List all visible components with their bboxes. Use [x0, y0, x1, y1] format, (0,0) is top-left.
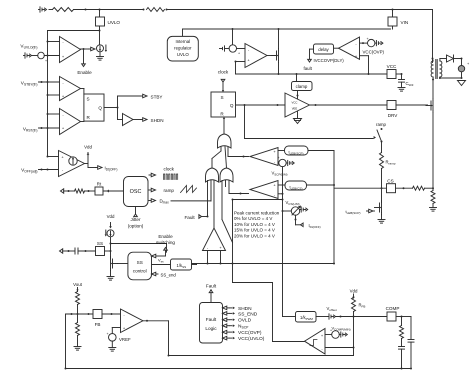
svg-text:OSC: OSC: [130, 189, 142, 195]
wire SS to control: [111, 243, 167, 245]
battery V-offset: [316, 316, 328, 318]
svg-text:Rramp: Rramp: [386, 160, 396, 166]
svg-text:Voffset: Voffset: [327, 306, 337, 312]
icon sawtooth: [181, 186, 197, 193]
wire top to transformer: [432, 10, 434, 63]
pin VCC: [387, 70, 396, 79]
source Vref-reg: [232, 29, 234, 45]
schmitt U12: [305, 329, 326, 355]
op-amp U10 CS: [250, 181, 278, 199]
svg-text:VEE: VEE: [292, 107, 298, 111]
wire schmitt minus: [325, 347, 354, 349]
ground I-UVLO: [99, 52, 101, 57]
svg-text:Vdd: Vdd: [107, 214, 115, 219]
source VREF: [109, 334, 117, 342]
svg-text:RFB: RFB: [359, 303, 366, 309]
transformer T1: [431, 61, 433, 77]
capacitor C-comp1: [399, 346, 405, 348]
resistor R-cs-filter: [413, 186, 425, 190]
svg-text:Vss: Vss: [158, 258, 164, 264]
pin-arrow Rt-gnd: [61, 189, 64, 193]
pin VIN: [392, 10, 394, 18]
svg-text:SS_end: SS_end: [161, 272, 177, 277]
block delay: [334, 47, 339, 49]
or-gate G2 left: [206, 168, 219, 182]
flag enable-switching: [164, 248, 168, 251]
svg-text:Fault: Fault: [206, 317, 217, 322]
block tLEB-SCP: [278, 150, 285, 152]
wire clamp-driver: [297, 91, 299, 100]
op-amp U4 gm: [59, 151, 85, 177]
svg-text:Enable: Enable: [158, 234, 173, 239]
flag fault-VCC(UVLO): [227, 337, 229, 339]
op-amp U6 regulator: [245, 44, 267, 68]
pin DRV: [387, 101, 396, 110]
node SS: [110, 243, 112, 245]
wire VCC rail: [236, 73, 388, 75]
wire G3 inputs: [221, 181, 223, 220]
svg-text:Internal: Internal: [175, 39, 190, 44]
svg-text:10% for UVLO = 4 V: 10% for UVLO = 4 V: [234, 222, 275, 227]
ground Q3: [378, 219, 385, 221]
svg-text:VCOMP(MIN): VCOMP(MIN): [332, 326, 351, 332]
block tLEB-CS: [278, 184, 285, 186]
wire Q1 source: [432, 113, 434, 191]
wire sum node A: [192, 263, 335, 265]
wire top rail: [49, 9, 53, 11]
pin SS: [96, 247, 105, 256]
wire secondary bottom: [439, 77, 441, 78]
source V-SCP-LIM: [277, 162, 280, 164]
resistor R-fb2: [76, 323, 80, 336]
wire bottom rail: [66, 368, 412, 370]
node top-B: [99, 9, 101, 11]
svg-text:OVLD: OVLD: [238, 318, 252, 324]
wire U3 plus: [39, 127, 60, 129]
wire G2 inputs: [207, 181, 209, 217]
flag ramp out: [149, 189, 151, 191]
transistor Q5 pass: [278, 51, 280, 61]
wire rail2: [183, 28, 391, 30]
svg-text:VOFF(adj): VOFF(adj): [21, 168, 37, 174]
block internal regulator UVLO: [182, 29, 184, 36]
latch L1 STBY: [84, 94, 104, 121]
svg-text:VREF: VREF: [119, 337, 131, 342]
wire comp1 out: [81, 48, 89, 50]
svg-text:tLEB(SCP): tLEB(SCP): [346, 209, 361, 215]
flag enable: [83, 49, 85, 64]
svg-text:S: S: [220, 95, 223, 100]
wire U7 minus: [360, 42, 368, 44]
wire driver vee: [297, 111, 299, 119]
wire G3 out: [225, 147, 227, 168]
svg-text:(option): (option): [128, 224, 144, 229]
block 1/k-PWM: [296, 312, 317, 323]
load output: [461, 59, 463, 66]
wire tLEB-CS right: [307, 184, 335, 186]
svg-text:UVLO: UVLO: [108, 20, 121, 25]
op-amp U1: [60, 37, 81, 63]
ground R-sense: [430, 207, 437, 209]
or-gate G3 right: [220, 168, 233, 182]
buffer SHDN: [117, 108, 119, 120]
block clamp: [296, 74, 298, 82]
wire VREF: [112, 327, 120, 329]
resistor Rdiv2: [147, 8, 165, 12]
svg-text:VUVLO(th): VUVLO(th): [20, 44, 37, 50]
resistor R-sense: [431, 191, 435, 204]
pin COMP: [387, 312, 396, 321]
svg-text:Dmax: Dmax: [160, 199, 170, 205]
svg-text:Cvcc: Cvcc: [406, 81, 414, 87]
wire G2 out: [211, 159, 213, 169]
node FB div: [77, 313, 79, 315]
wire U6 out: [267, 55, 277, 57]
node rail2-ref: [232, 28, 234, 30]
source V-CS-LIM variable: [283, 210, 292, 212]
wire G1 in right: [227, 147, 229, 157]
oscillator OSC: [124, 177, 149, 207]
svg-text:switching: switching: [156, 240, 175, 245]
wire L1 Q out: [104, 107, 118, 109]
wire U4 minus: [39, 169, 59, 171]
wire U3 out: [81, 121, 84, 123]
op-amp U5 PWM: [203, 228, 226, 251]
svg-text:Enable: Enable: [77, 70, 92, 75]
flag fault-OVLD: [227, 319, 229, 321]
node Q5 drain: [278, 29, 280, 49]
block SS control: [128, 252, 152, 280]
flag Dmax out: [149, 200, 151, 202]
source V-UVLO(th): [24, 55, 26, 57]
svg-text:+: +: [467, 62, 470, 66]
or-gate G1 top: [218, 134, 232, 148]
ground secondary: [458, 81, 466, 86]
wire Dmax: [171, 200, 211, 202]
wire Rt to OSC: [103, 190, 124, 192]
wire U5 inputs: [207, 251, 209, 264]
wire kss out: [192, 264, 197, 266]
wire ramp-sum: [233, 199, 283, 201]
svg-text:VCC: VCC: [292, 101, 298, 105]
svg-text:NSCP: NSCP: [238, 324, 249, 330]
svg-text:Q: Q: [98, 105, 102, 110]
ground R-fb2: [74, 346, 81, 348]
flag jitter: [135, 207, 137, 215]
svg-text:+: +: [45, 59, 47, 63]
flag IVCCOVP: [310, 48, 314, 50]
svg-text:15% for UVLO = 4 V: 15% for UVLO = 4 V: [234, 228, 275, 233]
wire U4 out: [85, 163, 89, 165]
flag fault-SHDN: [227, 307, 229, 309]
wire latch2 to driver: [236, 104, 286, 106]
ground Cvcc: [398, 87, 405, 89]
box Rt: [95, 187, 103, 195]
svg-text:fault: fault: [304, 66, 313, 71]
current source I-SS: [110, 225, 112, 227]
wire kpwm net: [283, 316, 296, 318]
svg-text:IVCCOVP(DLY): IVCCOVP(DLY): [314, 58, 345, 63]
flag fault-VCC(OVP): [227, 331, 229, 333]
svg-text:S: S: [87, 97, 90, 102]
wire U2 out: [81, 88, 84, 90]
wire Vss: [152, 264, 171, 266]
compensation R-comp: [401, 317, 403, 326]
svg-text:ramp: ramp: [376, 122, 387, 127]
svg-text:VCC: VCC: [387, 64, 397, 69]
source VCC-OVP: [368, 39, 375, 46]
svg-text:Vdd: Vdd: [350, 289, 358, 294]
wire EA out: [143, 320, 169, 322]
wire FB: [66, 313, 94, 315]
icon clock pulses: [164, 174, 178, 180]
svg-text:SHDN: SHDN: [151, 118, 164, 123]
resistor R-FB-pullup: [352, 298, 356, 312]
capacitor C-comp2: [410, 317, 412, 340]
wire U10 minus: [278, 193, 283, 195]
svg-text:COMP: COMP: [386, 306, 400, 311]
flag STBY: [141, 95, 143, 97]
svg-text:IDt(OFF): IDt(OFF): [309, 223, 321, 229]
wire secondary top: [439, 59, 441, 62]
svg-text:clock: clock: [218, 70, 229, 75]
svg-text:VSCP(LIM): VSCP(LIM): [272, 171, 288, 177]
svg-text:VRST(th): VRST(th): [23, 127, 38, 133]
svg-text:VIN: VIN: [401, 20, 409, 25]
pin UVLO: [99, 10, 101, 18]
wire tLEB-SCP right: [308, 150, 334, 152]
svg-text:VCC(OVP): VCC(OVP): [238, 330, 262, 336]
flag fault-SS_END: [227, 312, 229, 314]
svg-text:20% for UVLO = 4 V: 20% for UVLO = 4 V: [234, 233, 275, 238]
wire U3 minus: [48, 113, 60, 115]
op-amp U7 OVP: [339, 37, 360, 59]
pin CS: [387, 184, 396, 193]
svg-text:+: +: [278, 156, 280, 160]
wire schmitt plus: [325, 334, 332, 336]
svg-text:clamp: clamp: [296, 84, 308, 89]
svg-text:control: control: [133, 269, 147, 274]
wire U6 plus sense: [236, 61, 246, 63]
svg-text:Peak current reduction: Peak current reduction: [234, 211, 280, 216]
svg-text:delay: delay: [318, 47, 329, 52]
op-amp U2: [60, 77, 81, 101]
wire primary bottom: [432, 77, 434, 80]
wire Q to switch: [244, 105, 246, 139]
svg-text:+: +: [367, 37, 369, 41]
svg-text:SS_END: SS_END: [238, 311, 258, 317]
source V-COMP-min: [332, 331, 340, 339]
svg-text:VCC(UVLO): VCC(UVLO): [238, 336, 265, 342]
flag fault-NSCP: [227, 325, 229, 327]
svg-text:STBY: STBY: [151, 94, 163, 99]
svg-text:CS: CS: [387, 179, 393, 184]
ground VREF: [109, 347, 116, 349]
svg-text:DRV: DRV: [388, 113, 399, 118]
node UVLO-bus: [99, 30, 101, 32]
wire U2 minus: [39, 81, 60, 83]
battery VIN-source: [39, 9, 41, 11]
transistor Q1 main: [432, 101, 434, 111]
resistor Rdiv1: [53, 8, 74, 12]
svg-text:clock: clock: [164, 167, 175, 172]
flag SS-end: [156, 273, 158, 275]
current source I-UVLO: [97, 45, 104, 52]
block 1/k-SS: [171, 259, 192, 270]
svg-text:Vout: Vout: [73, 282, 83, 287]
svg-text:Rt: Rt: [97, 181, 102, 186]
pin FB: [93, 310, 102, 319]
svg-text:+: +: [238, 52, 240, 56]
svg-text:Vdd: Vdd: [84, 145, 92, 150]
wire FB left down: [65, 314, 67, 369]
node top-D: [166, 9, 168, 11]
resistor Rt-ext: [75, 189, 85, 193]
op-amp U9 SCP: [250, 148, 278, 166]
svg-text:VCC(OVP): VCC(OVP): [363, 49, 385, 54]
wire CS line: [334, 187, 387, 189]
svg-text:0% for UVLO = 4 V: 0% for UVLO = 4 V: [234, 216, 272, 221]
svg-text:regulator: regulator: [174, 46, 192, 51]
latch L2 PWM: [211, 92, 236, 117]
capacitor C-SS: [74, 248, 76, 254]
svg-text:Q: Q: [230, 103, 234, 108]
flag I-DtOFF-in: [295, 215, 297, 225]
svg-text:Jitter: Jitter: [131, 217, 141, 222]
wire ref stack: [282, 167, 284, 317]
node top-A: [85, 9, 87, 11]
svg-text:Fault: Fault: [185, 215, 196, 220]
flag SHDN: [141, 119, 143, 121]
op-amp U11 error amp: [121, 309, 143, 333]
capacitor Cvcc: [401, 74, 403, 80]
flag Fault out: [210, 293, 212, 303]
resistor R-ramp: [381, 142, 383, 153]
svg-text:Fault: Fault: [206, 284, 217, 289]
svg-text:IDt(OFF): IDt(OFF): [105, 166, 118, 172]
svg-text:SS: SS: [137, 260, 143, 265]
wire U2 plus: [48, 94, 60, 96]
ground driver: [294, 119, 302, 124]
svg-text:ramp: ramp: [164, 188, 175, 193]
svg-text:SS: SS: [97, 241, 103, 246]
wire U7 plus: [360, 55, 369, 57]
svg-text:+: +: [107, 332, 109, 336]
svg-text:FB: FB: [95, 322, 101, 327]
node top-C: [143, 9, 145, 11]
wire driver out: [310, 104, 388, 106]
wire U1 minus: [48, 41, 60, 43]
wire UVLO to bus: [48, 30, 100, 32]
wire L2 R in: [223, 117, 225, 134]
flag I-DtOFF: [96, 167, 98, 169]
wire left bus: [47, 31, 49, 157]
ground Q4: [107, 276, 114, 278]
driver U8: [285, 93, 310, 117]
battery V-CS-LIM: [300, 209, 302, 211]
svg-text:Logic: Logic: [205, 326, 217, 331]
wire U4 plus: [48, 156, 59, 158]
wire Q5 source: [278, 63, 280, 75]
transistor Q3 LEB: [381, 188, 383, 202]
flag clock L2: [221, 79, 225, 82]
op-amp U3: [60, 109, 81, 135]
battery Vref-reg: [225, 48, 230, 50]
block Fault Logic: [200, 303, 223, 344]
pin-arrow SS-gnd: [60, 249, 63, 253]
svg-text:VCS(LIM): VCS(LIM): [286, 200, 300, 206]
svg-text:VSTBY(th): VSTBY(th): [21, 81, 38, 87]
wire skip net: [232, 200, 234, 283]
diode D1: [447, 55, 454, 62]
transistor Q4 SS: [110, 259, 112, 269]
resistor R-fb1: [76, 292, 80, 305]
svg-text:UVLO: UVLO: [177, 52, 190, 57]
flag clock out: [149, 174, 151, 176]
svg-text:SHDN: SHDN: [238, 306, 252, 312]
